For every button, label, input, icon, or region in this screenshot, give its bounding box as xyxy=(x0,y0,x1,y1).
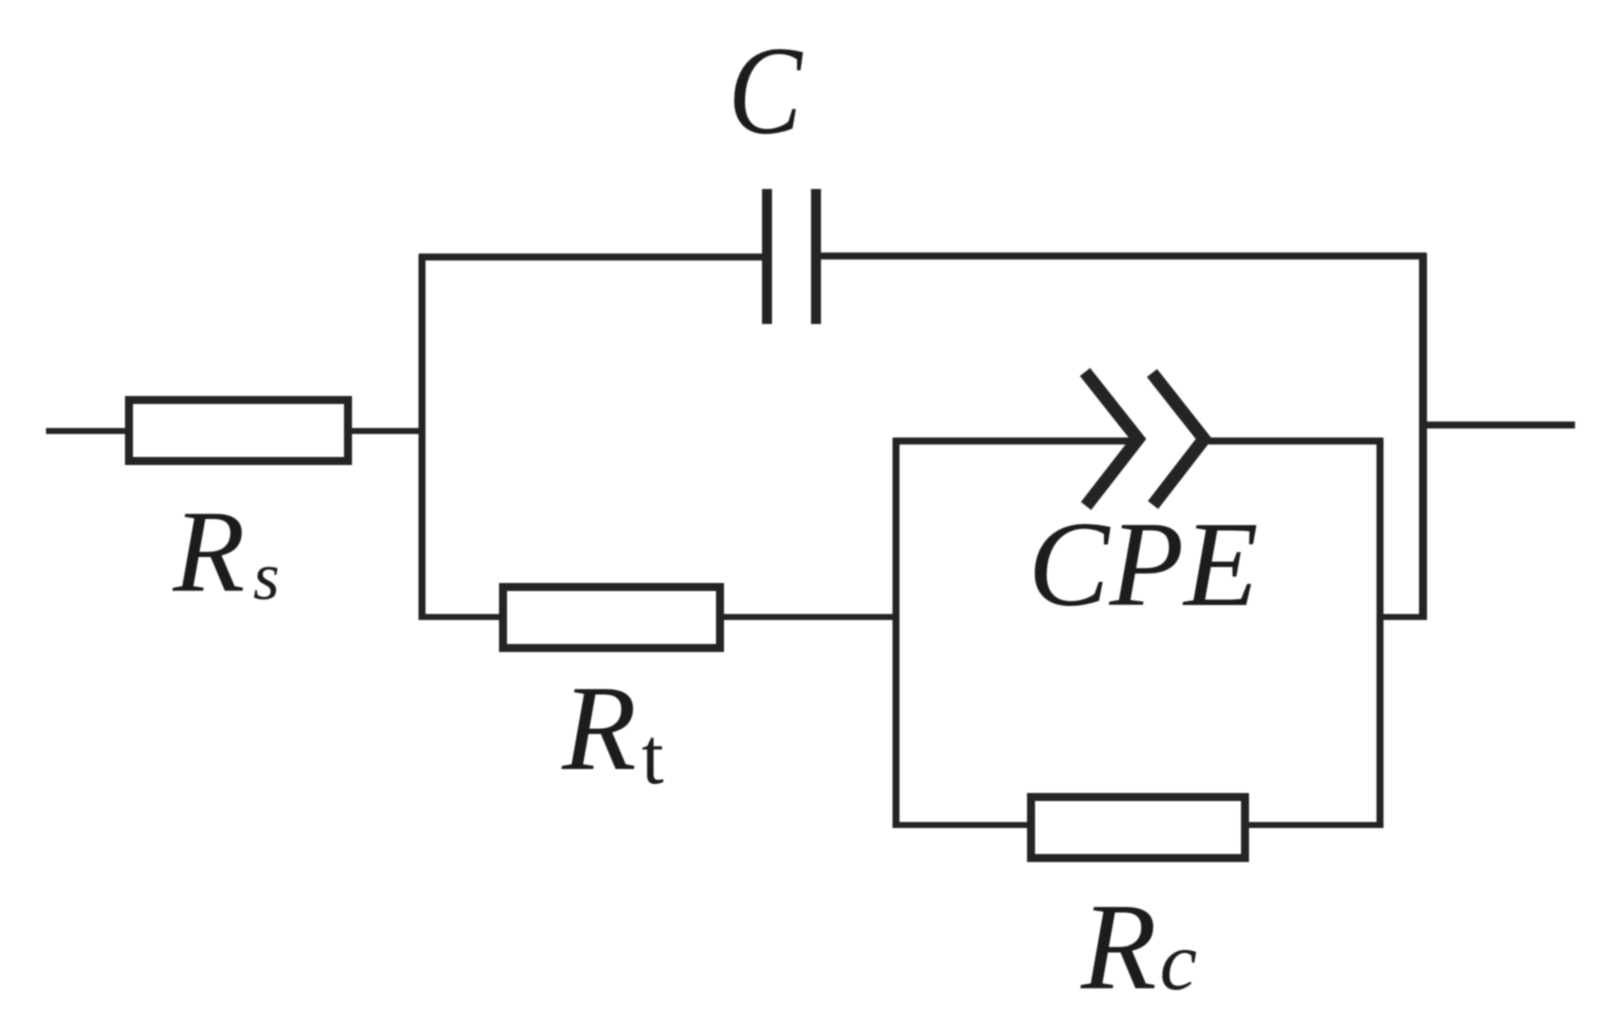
svg-text:Rt: Rt xyxy=(561,661,664,801)
resistor Rs xyxy=(129,400,348,461)
wire CPE loop bottom left segment xyxy=(893,822,1030,828)
wire top branch left xyxy=(419,254,767,261)
svg-text:Rs: Rs xyxy=(172,486,280,617)
wire bottom branch left xyxy=(421,614,501,620)
node A junction vertical wire xyxy=(419,254,426,620)
svg-text:C: C xyxy=(728,20,804,160)
svg-text:CPE: CPE xyxy=(1028,497,1258,632)
wire CPE loop left vertical xyxy=(893,438,900,828)
wire output stub xyxy=(1423,422,1575,429)
wire top branch right xyxy=(821,253,1426,260)
wire input stub xyxy=(46,428,127,434)
resistor Rc xyxy=(1031,797,1245,858)
wire Rs to node A xyxy=(348,428,421,434)
wire right vertical to output node xyxy=(1419,253,1427,620)
wire CPE loop top right segment xyxy=(1206,438,1383,445)
wire Rt to CPE loop xyxy=(720,614,899,620)
wire CPE loop bottom right segment xyxy=(1245,822,1383,828)
resistor Rt xyxy=(503,587,720,648)
wire CPE loop to output node xyxy=(1377,614,1426,620)
wire CPE loop top left segment xyxy=(893,438,1134,445)
svg-text:Rc: Rc xyxy=(1080,878,1197,1015)
wire CPE loop right vertical xyxy=(1377,438,1384,828)
capacitor C xyxy=(767,189,816,324)
CPE element chevrons xyxy=(1085,372,1204,506)
